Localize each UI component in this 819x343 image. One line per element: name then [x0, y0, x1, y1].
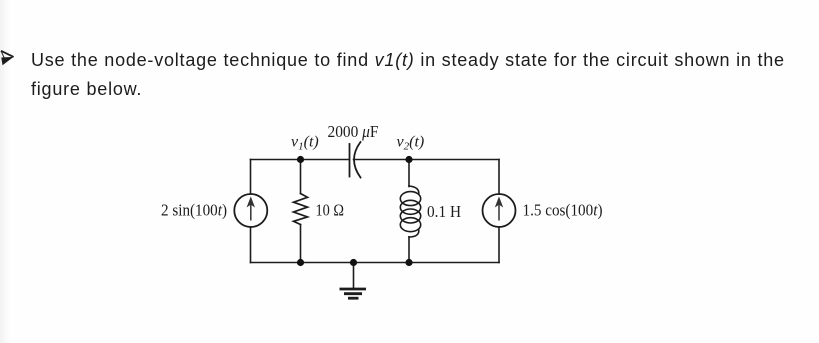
capacitor C1 left plate — [349, 144, 351, 177]
wire left edge upper — [250, 160, 252, 195]
inductor L1 loops — [400, 192, 420, 206]
node v2 dot — [405, 156, 412, 163]
inductor L1 top hook — [409, 186, 419, 194]
node bottom resistor dot — [297, 259, 304, 266]
faint scan edge — [0, 0, 9, 343]
bullet arrowhead — [0, 0, 24, 80]
wire top: v1 segment — [251, 159, 350, 161]
svg-text:2000 μF: 2000 μF — [328, 122, 379, 141]
svg-text:v2(t): v2(t) — [397, 134, 425, 153]
ground bar 2 — [344, 292, 362, 295]
wire resistor branch top — [300, 160, 302, 194]
node ground dot — [350, 259, 357, 266]
ground bar 1 — [340, 288, 367, 291]
wire right edge upper — [498, 160, 500, 195]
svg-text:1.5 cos(100t): 1.5 cos(100t) — [523, 201, 603, 220]
wire inductor branch bottom — [408, 237, 410, 263]
wire inductor branch top — [408, 160, 410, 187]
svg-text:2 sin(100t): 2 sin(100t) — [161, 201, 227, 220]
current source I1 circle — [234, 194, 267, 227]
wire top: cap to v2 to right corner — [354, 159, 500, 161]
inductor L1 bottom hook — [409, 230, 419, 237]
wire left edge lower — [250, 227, 252, 263]
resistor R1 zigzag — [294, 194, 308, 225]
node bottom inductor dot — [405, 259, 412, 266]
node v1 dot — [297, 156, 304, 163]
svg-text:v1(t): v1(t) — [291, 134, 319, 153]
wire resistor branch bottom — [300, 225, 302, 263]
problem text — [31, 46, 819, 104]
arrow of source I1 — [247, 198, 254, 221]
arrow of source I2 — [496, 198, 503, 221]
wire bottom — [251, 262, 500, 264]
ground bar 3 — [348, 297, 359, 300]
current source I2 circle — [483, 194, 516, 227]
ground stem — [353, 263, 355, 289]
svg-text:10 Ω: 10 Ω — [316, 201, 345, 220]
svg-text:0.1 H: 0.1 H — [427, 202, 461, 221]
wire right edge lower — [498, 227, 500, 263]
capacitor C1 right curved plate — [354, 142, 361, 178]
